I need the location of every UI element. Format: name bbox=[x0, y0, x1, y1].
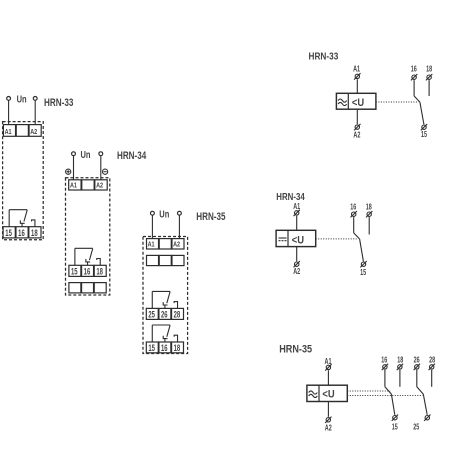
svg-text:Un: Un bbox=[17, 95, 27, 106]
wire bbox=[353, 217, 355, 233]
supply terminal circle Un-R bbox=[178, 211, 182, 215]
relay coil box U1 bbox=[336, 93, 376, 109]
svg-text:25: 25 bbox=[413, 422, 419, 431]
contact arm bbox=[417, 387, 424, 394]
wire bbox=[420, 102, 424, 124]
svg-text:16: 16 bbox=[18, 228, 25, 238]
terminal 16 bbox=[351, 211, 357, 217]
svg-text:18: 18 bbox=[174, 343, 181, 353]
wire bbox=[431, 370, 433, 387]
supply terminal circle Un-L bbox=[151, 211, 155, 215]
contact arm bbox=[414, 96, 420, 102]
wire bbox=[399, 370, 401, 387]
svg-text:A2: A2 bbox=[293, 267, 300, 276]
svg-text:18: 18 bbox=[426, 65, 432, 74]
svg-text:HRN-35: HRN-35 bbox=[196, 211, 225, 223]
relay coil box U2 bbox=[276, 230, 316, 246]
terminal A2 bbox=[294, 261, 300, 267]
svg-text:16: 16 bbox=[84, 266, 91, 276]
wire bbox=[151, 215, 153, 239]
svg-text:16: 16 bbox=[350, 202, 356, 211]
relay changeover contact 15-16-18 bbox=[75, 248, 100, 265]
device outline HRN-33 bbox=[3, 122, 44, 240]
svg-text:18: 18 bbox=[366, 202, 372, 211]
svg-text:<U: <U bbox=[292, 234, 304, 246]
terminal 15 bbox=[392, 415, 398, 421]
contact arm bbox=[385, 387, 392, 394]
terminal 18 bbox=[426, 74, 432, 80]
svg-text:A2: A2 bbox=[173, 240, 180, 249]
relay changeover contact 25-26-28 bbox=[152, 291, 177, 308]
svg-text:A2: A2 bbox=[325, 424, 332, 433]
polarity mark plus bbox=[66, 169, 71, 174]
relay coil box U3 bbox=[307, 385, 347, 401]
DC supply symbol bbox=[279, 238, 287, 241]
svg-text:16: 16 bbox=[161, 343, 168, 353]
wire bbox=[327, 402, 329, 417]
wire bbox=[368, 217, 370, 234]
wire bbox=[413, 80, 415, 96]
terminal A1 bbox=[294, 210, 300, 216]
supply terminal circle Un-R bbox=[99, 152, 103, 156]
svg-text:15: 15 bbox=[148, 343, 155, 353]
terminal 18 bbox=[397, 364, 403, 370]
svg-text:A2: A2 bbox=[30, 127, 37, 136]
terminal 26 bbox=[414, 364, 420, 370]
terminal block A1-x-A2 bbox=[3, 125, 41, 137]
wire bbox=[327, 370, 329, 385]
terminal A1 bbox=[354, 73, 360, 79]
AC supply symbol bbox=[338, 99, 347, 106]
svg-text:15: 15 bbox=[421, 130, 427, 139]
terminal 16 bbox=[382, 364, 388, 370]
wire bbox=[423, 394, 427, 415]
dotted actuation link bbox=[347, 395, 422, 397]
terminal 15 bbox=[421, 124, 427, 130]
wire bbox=[100, 156, 102, 180]
supply terminal circle Un-R bbox=[33, 97, 37, 101]
svg-text:25: 25 bbox=[148, 309, 155, 319]
terminal block x-x-x bbox=[69, 283, 106, 293]
supply terminal circle Un-L bbox=[72, 152, 76, 156]
wire bbox=[384, 370, 386, 387]
terminal A2 bbox=[354, 124, 360, 130]
terminal A1 bbox=[325, 364, 331, 370]
svg-text:15: 15 bbox=[5, 228, 12, 238]
svg-text:Un: Un bbox=[81, 150, 91, 161]
wire bbox=[34, 100, 36, 124]
terminal block 25-26-28 bbox=[146, 308, 183, 319]
svg-text:<U: <U bbox=[322, 389, 334, 401]
svg-text:A1: A1 bbox=[70, 181, 78, 190]
svg-text:18: 18 bbox=[31, 228, 38, 238]
svg-text:16: 16 bbox=[411, 65, 417, 74]
dotted actuation link bbox=[316, 238, 359, 240]
svg-text:15: 15 bbox=[71, 266, 78, 276]
terminal 18 bbox=[366, 211, 372, 217]
polarity mark minus bbox=[103, 169, 108, 174]
wire bbox=[428, 80, 430, 96]
terminal block x-x-x bbox=[147, 255, 185, 265]
wire bbox=[8, 100, 10, 124]
terminal A2 bbox=[325, 417, 331, 423]
terminal block A1-x-A2 bbox=[69, 180, 108, 190]
relay changeover contact 15-16-18 bbox=[9, 210, 35, 227]
wire bbox=[356, 79, 358, 93]
svg-text:HRN-34: HRN-34 bbox=[276, 192, 305, 203]
wire bbox=[73, 156, 75, 180]
svg-text:18: 18 bbox=[397, 356, 403, 365]
wire bbox=[391, 394, 394, 415]
wire bbox=[296, 247, 298, 262]
terminal 28 bbox=[429, 364, 435, 370]
contact arm bbox=[354, 233, 360, 239]
device outline HRN-34 bbox=[66, 178, 110, 295]
svg-text:A2: A2 bbox=[353, 131, 360, 140]
svg-text:A1: A1 bbox=[5, 127, 13, 136]
terminal 25 bbox=[424, 415, 430, 421]
AC supply symbol bbox=[309, 391, 318, 398]
svg-text:<U: <U bbox=[352, 97, 364, 109]
supply terminal circle Un-L bbox=[7, 97, 11, 101]
wire bbox=[416, 370, 418, 387]
svg-text:18: 18 bbox=[96, 266, 103, 276]
terminal 16 bbox=[411, 74, 417, 80]
svg-text:15: 15 bbox=[392, 422, 398, 431]
relay changeover contact 15-16-18 bbox=[152, 325, 177, 342]
wire bbox=[360, 239, 364, 261]
device outline HRN-35 bbox=[143, 237, 188, 354]
svg-text:A2: A2 bbox=[96, 181, 103, 190]
svg-text:HRN-33: HRN-33 bbox=[309, 52, 339, 63]
svg-text:A1: A1 bbox=[353, 65, 360, 74]
wire bbox=[296, 216, 298, 231]
dotted actuation link bbox=[347, 390, 390, 392]
svg-text:28: 28 bbox=[174, 309, 181, 319]
terminal block 15-16-18 bbox=[3, 227, 41, 238]
svg-text:Un: Un bbox=[159, 209, 169, 220]
svg-text:26: 26 bbox=[414, 356, 420, 365]
terminal block 15-16-18 bbox=[69, 265, 106, 276]
wire bbox=[356, 109, 358, 124]
terminal 15 bbox=[360, 261, 366, 267]
terminal block 15-16-18 bbox=[146, 342, 183, 353]
dotted actuation link bbox=[376, 101, 419, 103]
terminal block A1-x-A2 bbox=[147, 239, 185, 249]
svg-text:26: 26 bbox=[161, 309, 168, 319]
wire bbox=[178, 215, 180, 239]
svg-text:A1: A1 bbox=[148, 240, 156, 249]
svg-text:15: 15 bbox=[360, 268, 366, 277]
svg-text:HRN-33: HRN-33 bbox=[44, 97, 73, 109]
svg-text:HRN-34: HRN-34 bbox=[117, 150, 147, 162]
svg-text:16: 16 bbox=[381, 356, 387, 365]
svg-text:HRN-35: HRN-35 bbox=[279, 343, 312, 355]
